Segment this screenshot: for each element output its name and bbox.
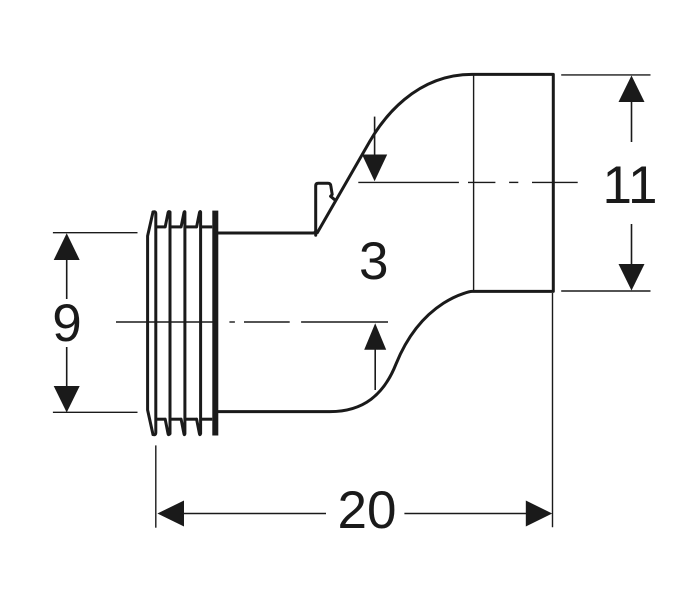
dim 11 extension bottom — [561, 290, 650, 292]
gasket valley 4 top — [201, 225, 213, 228]
gasket valley 1 bottom — [156, 418, 165, 421]
gasket fin 4 — [197, 212, 201, 435]
gasket collar — [212, 211, 218, 436]
gasket fin 2 — [165, 212, 170, 435]
centerline lower — [116, 321, 388, 323]
gasket valley 4 bottom — [201, 418, 213, 421]
dim 20 extension left — [155, 445, 157, 527]
gasket valley 3 bottom — [185, 418, 197, 421]
centerline upper — [358, 181, 577, 183]
svg-text:20: 20 — [338, 481, 397, 540]
pipe body outline — [218, 74, 553, 411]
dim 9 line — [66, 260, 68, 299]
offset arrow up — [374, 347, 376, 390]
gasket valley 2 top — [170, 225, 181, 228]
svg-text:11: 11 — [602, 156, 657, 215]
offset arrow down — [374, 117, 376, 160]
svg-text:9: 9 — [52, 294, 81, 353]
dim 9 arrow up — [54, 233, 80, 260]
dim 9 arrow down — [54, 386, 80, 413]
gasket fin 1 — [153, 212, 156, 435]
gasket valley 2 bottom — [170, 418, 181, 421]
gasket left face — [148, 212, 153, 435]
dim 9 extension bottom — [53, 411, 138, 413]
gasket valley 3 top — [185, 225, 197, 228]
socket depth line — [473, 74, 475, 291]
dim 11 extension top — [561, 74, 650, 76]
dim 20 extension right — [552, 293, 554, 527]
dim 11 line — [631, 102, 633, 142]
dim 11 arrow up — [619, 76, 645, 103]
gasket valley 1 top — [156, 225, 165, 228]
dim 9 extension top — [53, 232, 138, 234]
dim 11 arrow down — [619, 264, 645, 291]
dim 20 line — [183, 513, 326, 515]
dim 20 arrow left — [157, 501, 184, 527]
gasket fin 3 — [181, 212, 185, 435]
dim 20 arrow right — [526, 501, 552, 527]
svg-text:3: 3 — [359, 232, 388, 291]
